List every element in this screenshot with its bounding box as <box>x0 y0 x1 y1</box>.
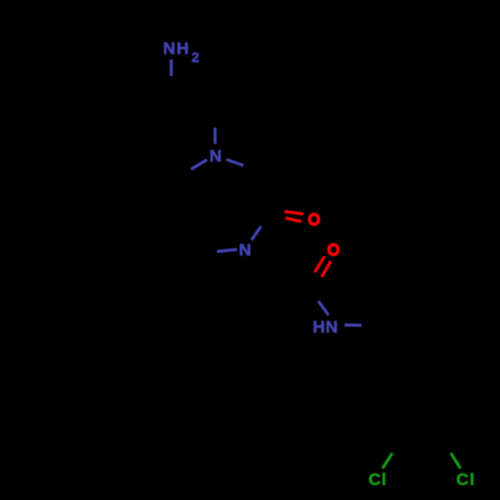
ring carbonyl C=O double bond (red half) <box>285 212 304 222</box>
node O amide oxygen <box>329 245 338 255</box>
wire bond C-Cl left (green half) <box>383 453 393 468</box>
svg-text:N: N <box>326 317 338 336</box>
svg-text:N: N <box>163 39 175 58</box>
node N3 amide NH <box>313 317 338 336</box>
amine group NH2 <box>163 39 199 65</box>
svg-text:l: l <box>382 470 387 489</box>
node O ring carbonyl oxygen <box>309 214 318 224</box>
svg-text:N: N <box>209 147 221 166</box>
svg-text:H: H <box>176 39 188 58</box>
wire bond C-Cl right (green half) <box>451 453 461 468</box>
svg-text:2: 2 <box>192 49 200 65</box>
wire bond N1 down-left (blue half) <box>191 160 207 170</box>
amide C=O double bond (red half) <box>315 257 331 277</box>
wire bond N1 down-right (blue half) <box>227 160 244 166</box>
wire bond NH2-CH2 (blue half) <box>170 60 173 77</box>
svg-text:l: l <box>470 470 475 489</box>
wire bond amide C-N3 (blue half) <box>318 301 328 315</box>
wire bond N3 right to CH2 (blue half) <box>345 324 362 327</box>
wire bond N2 up-right to carbonyl C (blue half) <box>252 227 262 241</box>
wire bond CH2-N1 (blue half) <box>214 128 217 145</box>
svg-text:C: C <box>456 470 468 489</box>
svg-text:C: C <box>368 470 380 489</box>
svg-text:H: H <box>313 317 325 336</box>
svg-text:N: N <box>239 241 251 260</box>
wire bond N2 left (blue half) <box>217 250 237 252</box>
